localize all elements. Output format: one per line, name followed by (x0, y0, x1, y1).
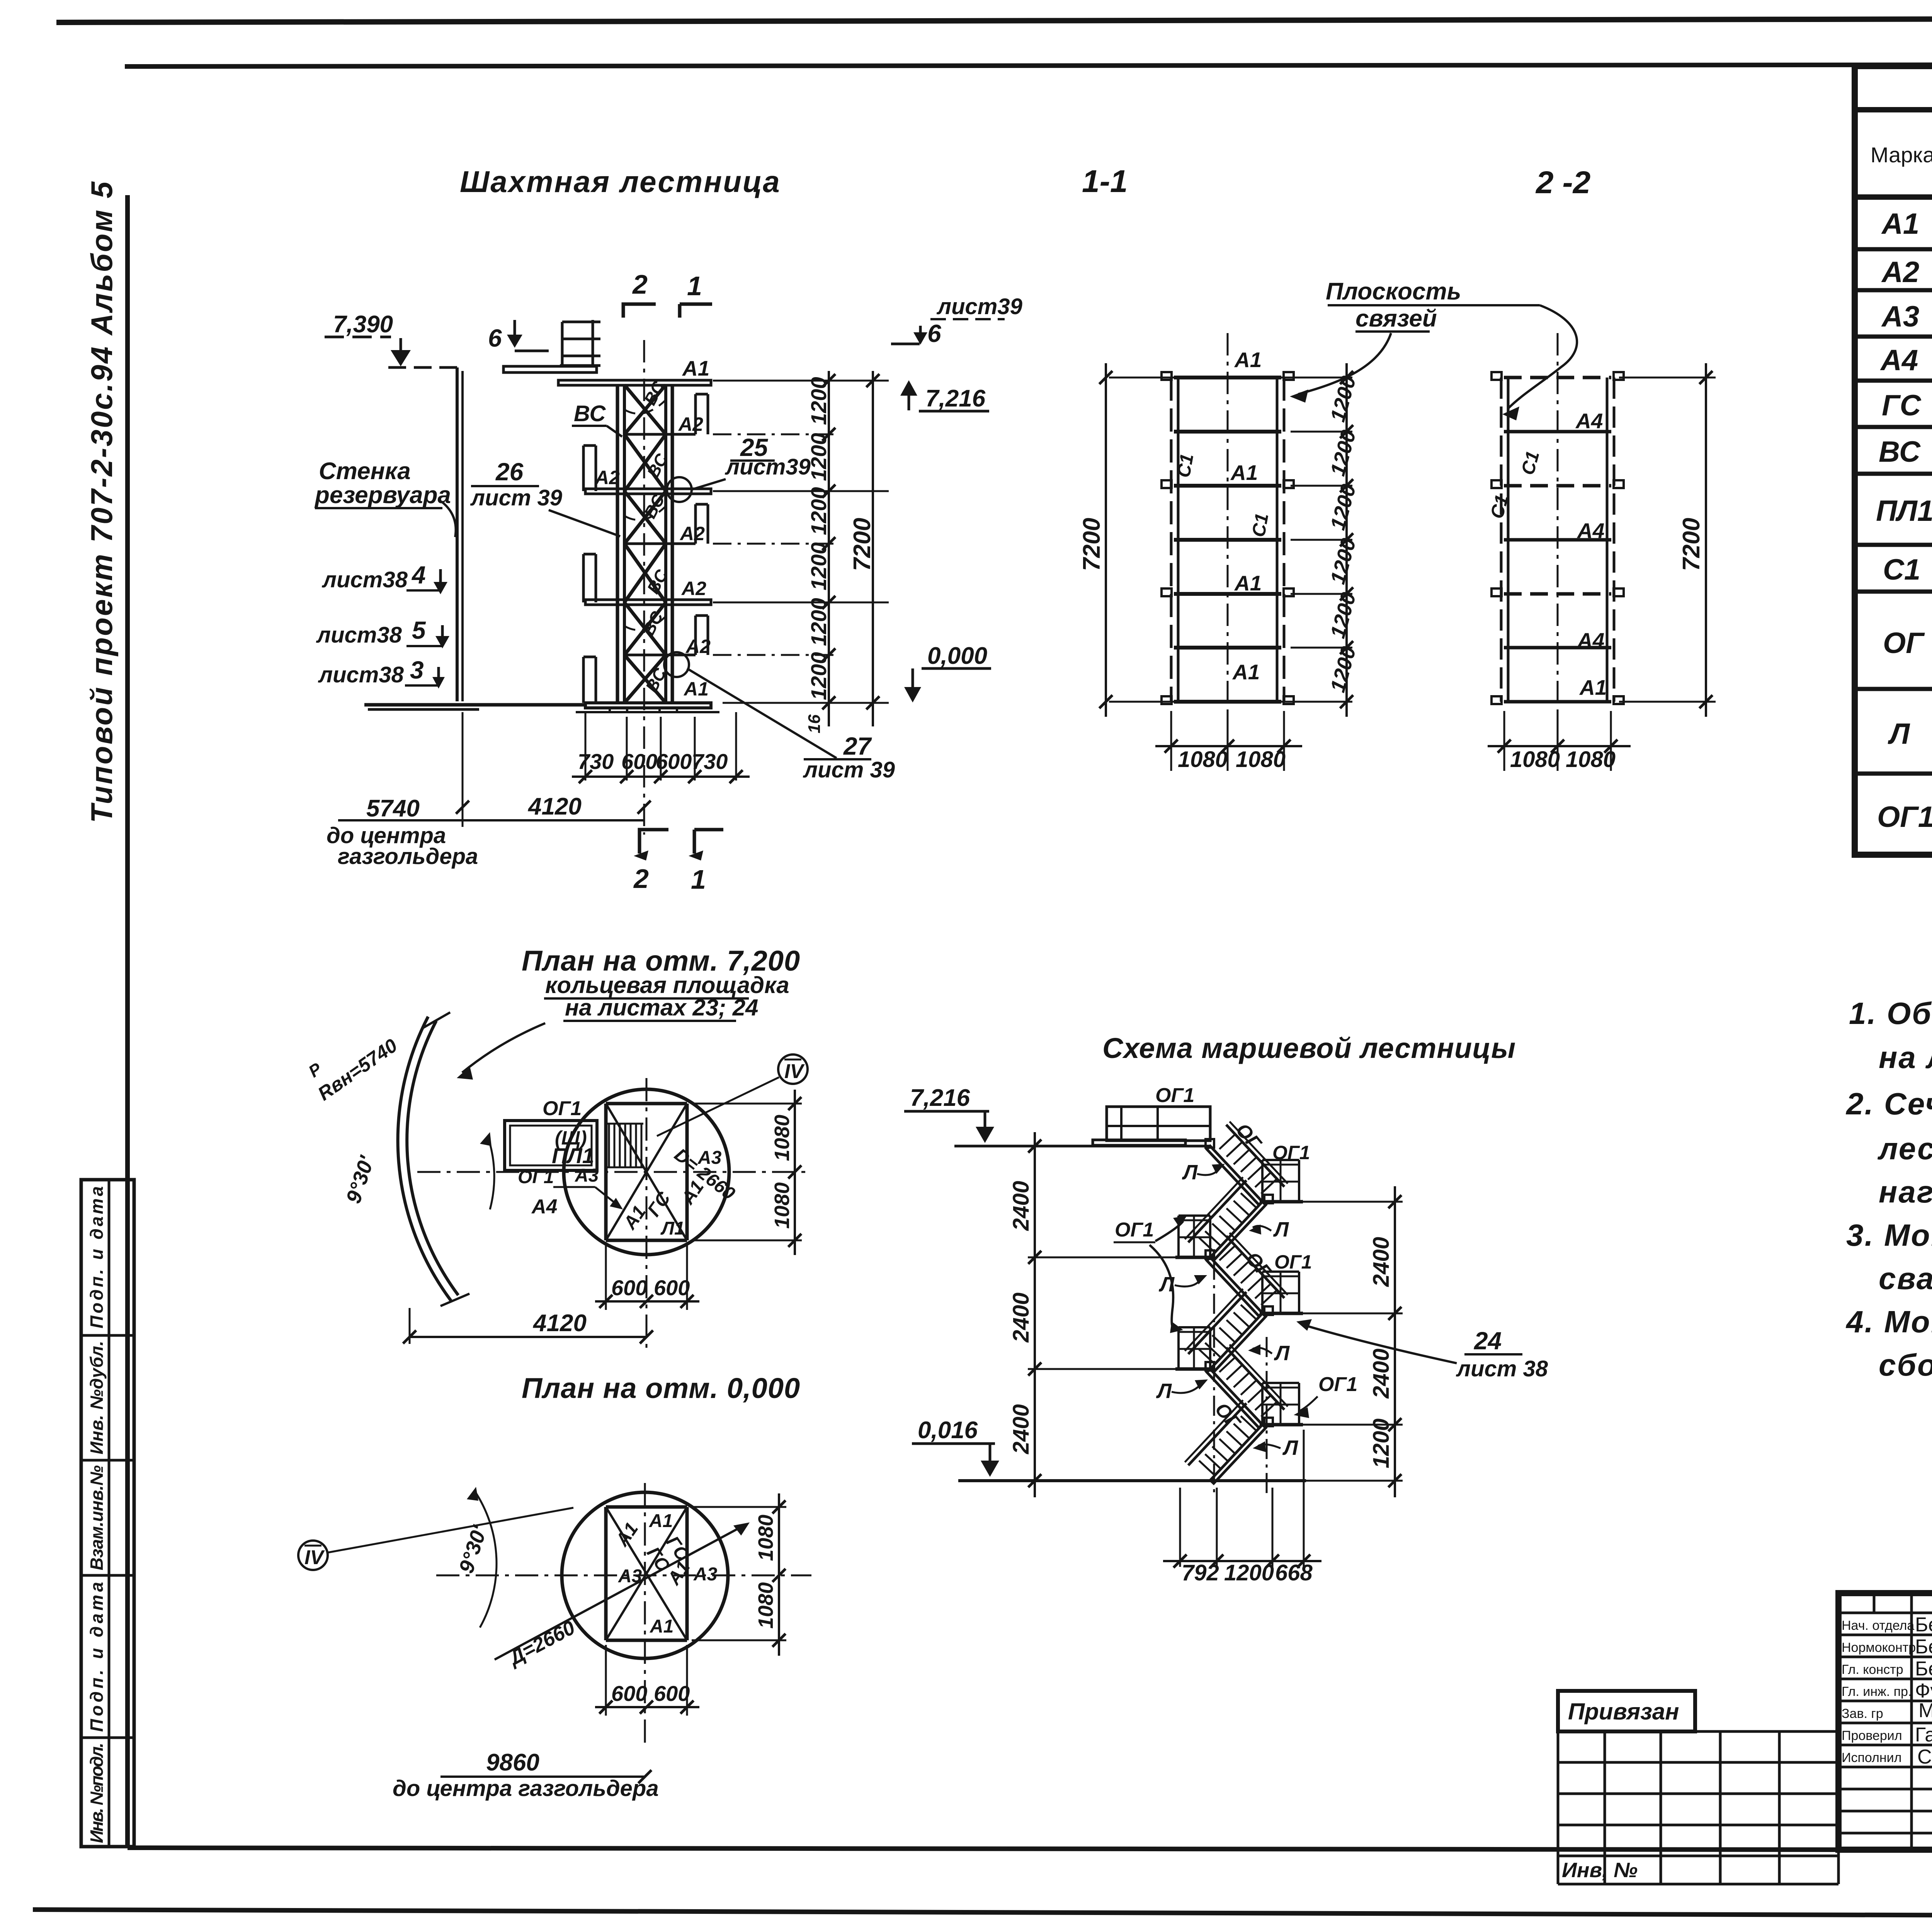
svg-text:7200: 7200 (1078, 518, 1105, 571)
svg-text:2400: 2400 (1369, 1349, 1394, 1399)
svg-text:792: 792 (1182, 1560, 1219, 1585)
svg-text:5: 5 (412, 616, 426, 644)
svg-text:на листах 23; 24: на листах 23; 24 (565, 995, 759, 1020)
svg-text:лист39: лист39 (724, 454, 811, 480)
svg-text:С1: С1 (1173, 452, 1198, 479)
svg-text:Подп. и дата: Подп. и дата (87, 1582, 107, 1732)
svg-text:Инв. №подл.: Инв. №подл. (87, 1743, 107, 1843)
svg-text:лист38: лист38 (316, 622, 402, 648)
svg-text:7,216: 7,216 (910, 1085, 970, 1111)
svg-text:600: 600 (654, 1681, 690, 1706)
svg-text:1080: 1080 (1510, 747, 1560, 772)
svg-text:2400: 2400 (1009, 1404, 1034, 1454)
svg-text:лист39: лист39 (936, 294, 1022, 319)
svg-text:газгольдера: газгольдера (338, 844, 478, 869)
svg-text:1: 1 (687, 271, 702, 301)
svg-text:Л: Л (1182, 1161, 1198, 1184)
svg-text:ОГ1: ОГ1 (1155, 1084, 1194, 1107)
svg-text:Марка: Марка (1871, 143, 1932, 167)
svg-text:Схема маршевой лестницы: Схема маршевой лестницы (1102, 1032, 1516, 1064)
svg-text:резервуара: резервуара (314, 482, 451, 509)
svg-text:5740: 5740 (366, 795, 420, 822)
svg-text:Л: Л (1274, 1342, 1290, 1365)
svg-text:2400: 2400 (1009, 1181, 1034, 1231)
svg-text:1200: 1200 (806, 652, 831, 700)
svg-text:ОГ1: ОГ1 (1274, 1251, 1312, 1273)
svg-text:нагрузок.: нагрузок. (1879, 1175, 1932, 1209)
svg-text:600: 600 (654, 1276, 690, 1300)
svg-text:ОГ1: ОГ1 (1115, 1219, 1154, 1241)
svg-text:26: 26 (495, 458, 524, 486)
svg-text:Беспалов: Беспалов (1915, 1614, 1932, 1636)
svg-text:сборки и выверки конструкци: сборки и выверки конструкций. (1879, 1348, 1932, 1382)
svg-text:А1: А1 (1579, 675, 1607, 699)
svg-text:План на отм. 0,000: План на отм. 0,000 (522, 1372, 800, 1404)
svg-text:А2: А2 (594, 467, 620, 488)
svg-text:А1: А1 (650, 1616, 673, 1637)
svg-text:668: 668 (1275, 1560, 1313, 1585)
svg-text:А3: А3 (697, 1148, 722, 1168)
svg-text:1080: 1080 (770, 1115, 794, 1161)
svg-text:А3: А3 (575, 1165, 599, 1186)
svg-text:ВС: ВС (574, 401, 606, 426)
svg-text:7200: 7200 (849, 518, 876, 571)
svg-text:7200: 7200 (1678, 518, 1705, 571)
svg-text:1200: 1200 (806, 542, 831, 590)
svg-text:А2: А2 (685, 636, 711, 657)
svg-text:1080: 1080 (754, 1515, 777, 1561)
svg-text:Л: Л (1158, 1273, 1175, 1296)
svg-text:Нормоконтр.: Нормоконтр. (1842, 1640, 1920, 1655)
svg-text:А2: А2 (1881, 256, 1919, 289)
svg-text:1080: 1080 (1178, 747, 1228, 772)
svg-text:Мазяр: Мазяр (1918, 1699, 1932, 1722)
svg-text:1080: 1080 (754, 1582, 777, 1629)
svg-text:лист 38: лист 38 (1456, 1356, 1548, 1381)
svg-text:лист38: лист38 (321, 567, 408, 592)
svg-text:А4: А4 (1880, 344, 1918, 377)
svg-text:1200: 1200 (806, 433, 831, 481)
svg-text:1200: 1200 (1369, 1418, 1394, 1468)
svg-text:ГС: ГС (1882, 389, 1922, 422)
svg-text:0,016: 0,016 (918, 1417, 978, 1444)
svg-text:Зав. гр: Зав. гр (1842, 1706, 1883, 1721)
svg-text:А2: А2 (681, 578, 706, 599)
svg-text:IV: IV (784, 1060, 805, 1083)
svg-text:А4: А4 (1575, 409, 1603, 433)
svg-text:Гл. констр: Гл. констр (1842, 1662, 1903, 1677)
svg-text:А2: А2 (678, 413, 703, 435)
svg-text:600: 600 (656, 749, 692, 774)
svg-text:2: 2 (633, 864, 649, 894)
svg-text:А4: А4 (1577, 628, 1604, 652)
svg-text:А4: А4 (531, 1196, 558, 1218)
svg-text:С1: С1 (1248, 512, 1273, 539)
svg-text:2400: 2400 (1009, 1293, 1034, 1343)
svg-text:Л: Л (1282, 1436, 1299, 1459)
svg-text:IV: IV (304, 1546, 325, 1569)
svg-text:1: 1 (691, 864, 706, 895)
svg-text:1-1: 1-1 (1082, 164, 1128, 199)
svg-text:лист 39: лист 39 (470, 485, 562, 510)
svg-text:А1: А1 (683, 678, 709, 700)
svg-text:Суздалева: Суздалева (1917, 1746, 1932, 1768)
svg-text:ВС: ВС (1879, 435, 1921, 468)
svg-text:1200: 1200 (1224, 1560, 1274, 1585)
svg-text:А1: А1 (1234, 348, 1262, 372)
svg-text:Проверил: Проверил (1842, 1728, 1902, 1743)
svg-text:4120: 4120 (527, 793, 582, 820)
svg-text:3: 3 (410, 656, 424, 684)
svg-text:А1: А1 (1234, 571, 1262, 595)
svg-text:Исполнил: Исполнил (1842, 1750, 1901, 1765)
svg-text:Плоскость: Плоскость (1326, 278, 1461, 305)
svg-text:сварке.: сварке. (1879, 1261, 1932, 1296)
svg-text:Инв, №: Инв, № (1562, 1859, 1638, 1882)
svg-text:ПЛ1: ПЛ1 (1876, 495, 1932, 527)
svg-text:Шахтная лестница: Шахтная лестница (460, 165, 781, 199)
svg-text:16: 16 (805, 714, 824, 733)
svg-text:1200: 1200 (806, 598, 831, 646)
svg-text:Нач. отдела: Нач. отдела (1842, 1618, 1914, 1633)
svg-text:А2: А2 (679, 523, 705, 544)
svg-text:3. Монтаж производить на бо: 3. Монтаж производить на болтах и (1846, 1218, 1932, 1252)
svg-text:600: 600 (621, 749, 657, 774)
svg-text:Инв. №дубл.: Инв. №дубл. (87, 1341, 107, 1454)
svg-text:А3: А3 (618, 1566, 642, 1587)
svg-text:600: 600 (611, 1681, 647, 1706)
svg-text:9860: 9860 (486, 1749, 539, 1776)
svg-text:1080: 1080 (770, 1182, 794, 1229)
svg-text:0,000: 0,000 (927, 643, 987, 669)
svg-text:7,390: 7,390 (333, 311, 393, 338)
svg-text:1200: 1200 (806, 487, 831, 535)
svg-text:ОГ1: ОГ1 (518, 1167, 554, 1187)
svg-text:Стенка: Стенка (319, 458, 411, 485)
svg-text:А1: А1 (649, 1511, 673, 1531)
svg-text:ОГ1: ОГ1 (1877, 801, 1932, 833)
svg-text:1080: 1080 (1566, 747, 1616, 772)
svg-text:ОГ1: ОГ1 (1272, 1142, 1310, 1163)
svg-text:Л: Л (1888, 718, 1910, 750)
svg-text:А4: А4 (1577, 519, 1604, 543)
svg-text:4120: 4120 (532, 1310, 587, 1337)
svg-text:730: 730 (692, 749, 728, 774)
svg-text:Гл. инж. пр.: Гл. инж. пр. (1842, 1684, 1912, 1699)
svg-text:лист 39: лист 39 (803, 757, 895, 782)
svg-text:4. Монтажную сварку выполнят: 4. Монтажную сварку выполнять после (1845, 1304, 1932, 1339)
svg-text:7,216: 7,216 (925, 385, 986, 412)
svg-text:на листах 2÷8,: на листах 2÷8, (1879, 1040, 1932, 1075)
svg-text:ОГ1: ОГ1 (1318, 1373, 1357, 1396)
svg-text:А3: А3 (1881, 300, 1919, 333)
svg-text:ОГ1: ОГ1 (543, 1097, 582, 1120)
svg-text:2: 2 (632, 269, 648, 299)
svg-text:Фукс: Фукс (1915, 1680, 1932, 1702)
svg-text:А1: А1 (1881, 207, 1919, 240)
svg-text:730: 730 (578, 749, 614, 774)
svg-text:ПЛ1: ПЛ1 (552, 1143, 594, 1168)
svg-text:лист38: лист38 (318, 662, 404, 687)
svg-text:24: 24 (1474, 1327, 1502, 1355)
svg-text:600: 600 (611, 1276, 647, 1300)
svg-text:Бейзерман: Бейзерман (1915, 1636, 1932, 1658)
svg-text:2 -2: 2 -2 (1535, 165, 1590, 200)
svg-text:А1: А1 (1232, 660, 1260, 684)
svg-text:Л: Л (1156, 1379, 1172, 1403)
svg-text:связей: связей (1355, 305, 1437, 332)
svg-text:1200: 1200 (806, 377, 831, 425)
svg-text:6: 6 (927, 320, 941, 347)
svg-text:А1: А1 (682, 356, 709, 380)
svg-text:2. Сечения и усилия элемент: 2. Сечения и усилия элементов шахтной (1845, 1087, 1932, 1121)
svg-text:1080: 1080 (1236, 747, 1286, 772)
svg-text:4: 4 (411, 561, 426, 589)
svg-text:2400: 2400 (1369, 1237, 1394, 1287)
svg-text:кольцевая площадка: кольцевая площадка (545, 972, 789, 998)
svg-text:С1: С1 (1883, 553, 1920, 586)
svg-text:А1: А1 (1230, 461, 1258, 485)
svg-text:Бейзерман: Бейзерман (1915, 1658, 1932, 1680)
svg-text:до центра газгольдера: до центра газгольдера (393, 1776, 659, 1801)
svg-text:А3: А3 (693, 1564, 718, 1585)
svg-text:Гараник: Гараник (1915, 1724, 1932, 1746)
svg-text:6: 6 (488, 324, 502, 352)
svg-text:Л: Л (1273, 1218, 1289, 1241)
svg-text:Л1: Л1 (660, 1218, 685, 1239)
svg-text:ОГ: ОГ (1883, 627, 1925, 660)
svg-text:27: 27 (843, 732, 872, 760)
svg-text:1. Общие данные и специфика: 1. Общие данные и спецификация металла (1849, 996, 1932, 1031)
svg-text:Подп. и дата: Подп. и дата (87, 1186, 107, 1328)
svg-text:лестницы одинаковы для всех: лестницы одинаковы для всех сочетаний (1877, 1131, 1932, 1166)
svg-text:Взам.инв.№: Взам.инв.№ (87, 1465, 107, 1570)
svg-text:Привязан: Привязан (1568, 1699, 1679, 1725)
